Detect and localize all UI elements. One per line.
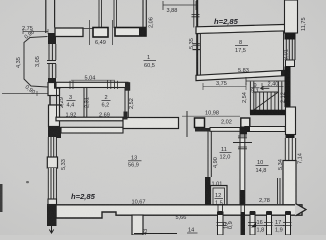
left wall extension to top edge bbox=[46, 0, 55, 33]
upper niche wall left bbox=[114, 0, 117, 28]
left bottom corner pier bbox=[47, 204, 57, 226]
left wall stub to rooms bbox=[49, 104, 62, 106]
window box 2 long bbox=[115, 28, 146, 37]
top wall opening thin line bbox=[83, 28, 93, 30]
dim 5,04 bbox=[71, 79, 115, 81]
stairwell right wall bbox=[278, 82, 281, 111]
partition 16 left bbox=[250, 212, 255, 235]
room 13 top wall left part bbox=[61, 127, 123, 133]
bottom wall main band bbox=[56, 205, 302, 218]
bay top dimension line 2,75 bbox=[23, 29, 48, 34]
upper wall right of room1 bbox=[143, 0, 146, 27]
room 2 right wall top corner bbox=[125, 82, 130, 91]
left exterior wall: top pier black bbox=[48, 33, 56, 44]
left wall window hatch lower bbox=[49, 64, 56, 78]
left wall box above corner bbox=[48, 199, 57, 205]
partition right of 17 bbox=[286, 212, 291, 235]
window box 1 bbox=[93, 28, 108, 38]
inner shaft wall right bbox=[278, 178, 281, 204]
right wall white box mid bbox=[286, 107, 296, 135]
scan artifact left edge bbox=[0, 184, 3, 212]
ticks on wall upper bbox=[192, 15, 200, 17]
room 8 interior and inner outline bbox=[200, 31, 283, 75]
rooms 2-3 top wall bbox=[56, 82, 128, 87]
left wall transom tick bbox=[47, 61, 56, 64]
partition 16 top cap bbox=[250, 211, 255, 215]
rooms 2-3 bottom wall bbox=[56, 117, 123, 121]
divider rooms 2-3 bbox=[84, 88, 87, 118]
ticks partition 15 bbox=[217, 223, 227, 226]
pier box left of room 10 bbox=[241, 118, 250, 128]
junction blob left of tall box bbox=[124, 112, 128, 120]
left wall window hatch upper bbox=[49, 44, 56, 60]
dim line 2,40 bbox=[262, 83, 284, 89]
stair treads bbox=[254, 92, 278, 110]
left wall middle pier box bbox=[47, 157, 57, 168]
left wall door gap edge bbox=[49, 96, 51, 106]
wall box right of door bbox=[195, 118, 205, 128]
left wall pier bbox=[48, 78, 56, 85]
dim line 3,75 bbox=[203, 83, 246, 90]
door ticks on divider bbox=[238, 136, 247, 149]
black partition lines through band bbox=[241, 206, 245, 213]
rooms 2-3 top wall black end bbox=[54, 82, 60, 89]
entrance arrow bbox=[49, 226, 53, 233]
corridor wall tall box bbox=[123, 118, 179, 129]
room 8 top wall bbox=[196, 24, 287, 33]
room 14 left wall bbox=[132, 215, 143, 235]
room 11 left wall upper bbox=[208, 128, 211, 177]
room 10 top wall black part bbox=[240, 127, 250, 132]
rooms 2-3 left wall bbox=[57, 88, 60, 118]
door line on wall bbox=[193, 49, 207, 51]
ticks on wall mid bbox=[193, 44, 200, 46]
partition right of 17 top cap bbox=[286, 211, 291, 215]
stairwell top line bbox=[246, 77, 285, 85]
right wall window hatch 2 bbox=[285, 138, 297, 161]
right wall tick box bbox=[286, 60, 295, 67]
partition 16-17 top cap bbox=[267, 211, 272, 215]
left wall long window hatch 5,33 upper bbox=[48, 137, 57, 157]
partition 16-17 bbox=[267, 212, 272, 235]
room 11 left wall lower black bbox=[205, 177, 211, 205]
door arrow mark room 16 bbox=[251, 223, 256, 228]
room 11 top wall dark part bbox=[195, 128, 210, 132]
stair arrow bbox=[260, 87, 269, 90]
paper speck bbox=[26, 181, 29, 183]
room 2 right wall bbox=[125, 88, 128, 118]
stairwell left wall bbox=[250, 82, 253, 115]
room 11 top wall bbox=[210, 128, 240, 132]
divider black top blob bbox=[241, 129, 248, 135]
left wall window hatch lower part bbox=[48, 168, 57, 200]
partition 15 top cap bbox=[218, 211, 224, 215]
top exterior wall band bbox=[55, 28, 83, 37]
left wall white box bbox=[49, 105, 60, 127]
bay window outline bbox=[24, 37, 48, 88]
corner junction black bbox=[139, 27, 146, 36]
wall break symbol bbox=[295, 204, 306, 216]
right wall black section bbox=[285, 67, 291, 108]
divider wall rooms 10-11 bbox=[240, 131, 245, 204]
dimension 3,88 bbox=[163, 1, 196, 10]
window ticks on top wall bbox=[70, 80, 118, 89]
window box1 extension to top edge bbox=[99, 0, 102, 28]
right wall black fill bbox=[285, 33, 296, 40]
room 8 bottom wall bbox=[196, 70, 287, 80]
door tick vertical bbox=[186, 111, 188, 137]
partition black bbox=[241, 212, 246, 235]
right exterior wall top box bbox=[285, 0, 298, 33]
divider black mid bbox=[241, 190, 245, 204]
stair diagonal bbox=[254, 92, 278, 110]
dimension line under bay left bbox=[2, 91, 49, 96]
door line on divider bbox=[233, 142, 252, 144]
thin companion line at top bbox=[193, 0, 195, 28]
partition room 15 left bbox=[218, 212, 224, 235]
dim ticks 6,49 bbox=[90, 20, 113, 45]
room 12 box bbox=[211, 186, 228, 208]
right wall bottom box bbox=[283, 161, 296, 206]
room 10 top wall bbox=[245, 127, 285, 132]
room8 bottom wall corner blob bbox=[281, 71, 288, 77]
wall between room1 and room8: bold line bbox=[196, 0, 198, 76]
right wall tick bbox=[286, 135, 295, 139]
left wall corner box bbox=[48, 83, 60, 96]
dim line 10,98 bbox=[182, 115, 240, 117]
left wall pier 2 bbox=[48, 127, 61, 138]
partition 15 lines through band bbox=[218, 206, 223, 213]
room 14 bottom line bbox=[134, 233, 177, 235]
right wall window hatch 3,01 bbox=[286, 40, 295, 61]
stairwell bottom black bar bbox=[250, 110, 286, 116]
